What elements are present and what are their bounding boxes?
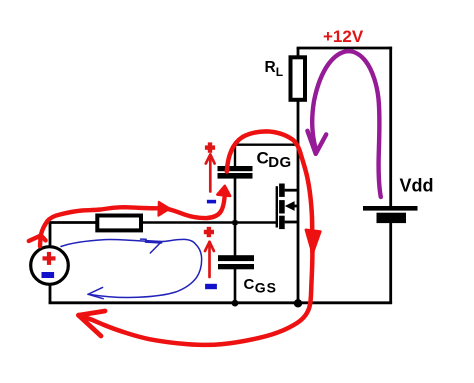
- junction: gate node: [233, 220, 238, 225]
- junction: source-bottom node: [294, 299, 302, 307]
- svg-text:C: C: [257, 149, 269, 168]
- wire: gate wire from R1 to MOSFET gate: [142, 221, 277, 224]
- wire: CGS bottom lead to bottom rail: [234, 269, 237, 304]
- annotation: red arrowhead mid (pointing down, on drain descent): [306, 230, 321, 254]
- annotation: red plus at CGS: [204, 227, 214, 237]
- svg-text:+12V: +12V: [323, 27, 364, 46]
- wire: right rail upper (top rail to Vdd battery): [389, 47, 392, 207]
- polarity - of source (blue): [42, 272, 55, 278]
- battery Vdd top plate: [363, 206, 418, 211]
- annotation: red up arrow at CGS: [205, 242, 214, 277]
- resistor RL: [291, 57, 306, 100]
- battery Vdd bottom plate: [377, 213, 407, 223]
- annotation: blue minus at CDG: [207, 200, 216, 204]
- annotation: red arrowhead at bottom-left (pointing up-left): [79, 311, 106, 336]
- annotation: red big loop over CDG and down the drain, around to source: [81, 131, 313, 344]
- annotation: blue minus at CGS: [205, 284, 217, 289]
- svg-text:DG: DG: [268, 154, 291, 171]
- Q1 channel bar (source): [279, 216, 285, 229]
- wire: CDG top lead and horizontal to drain rail: [235, 145, 298, 167]
- wire: from source bottom to bottom rail: [49, 284, 52, 303]
- junction: CGS-bottom node: [232, 300, 239, 307]
- annotation: red arrowhead into CDG (pointing up): [217, 186, 230, 196]
- annotation: red current arrow from source along gate loop into CDG: [29, 194, 225, 246]
- Q1 source stub: [285, 221, 298, 224]
- Q1 body arrow: [292, 205, 298, 208]
- resistor R1 (series, horizontal): [97, 216, 141, 231]
- Q1 drain stub: [285, 189, 298, 192]
- wire: top rail from RL top to right rail: [297, 47, 393, 50]
- Q1 gate bar: [276, 186, 278, 227]
- transistor Q1 (N-MOSFET): [276, 184, 298, 230]
- wire: drain rail from RL bottom down to bottom wire: [297, 101, 300, 304]
- annotation: red up arrow at CDG: [206, 155, 215, 192]
- capacitor CGS: [218, 255, 254, 269]
- annotation: blue circulating loop in input mesh: [61, 239, 202, 299]
- svg-text:GS: GS: [255, 280, 277, 296]
- Q1 channel bar (body): [279, 200, 285, 213]
- wire: CDG bottom lead down through gate node to CGS: [234, 178, 237, 256]
- annotation: red mid chevron on gate loop: [158, 202, 169, 216]
- annotation: purple arrow from Vdd up over to drain node: [307, 51, 380, 197]
- svg-text:Vdd: Vdd: [400, 176, 434, 196]
- polarity + of source (red): [43, 252, 56, 265]
- svg-text:C: C: [244, 276, 255, 293]
- Q1 channel bar (drain): [279, 184, 285, 197]
- wire: right rail lower (battery to bottom wire): [389, 223, 392, 304]
- wire: from source top to series resistor: [50, 223, 97, 247]
- capacitor CDG: [218, 166, 253, 179]
- wire: bottom rail: [49, 301, 393, 304]
- svg-text:L: L: [276, 65, 283, 79]
- wire: stub from top rail down to RL: [297, 48, 300, 58]
- voltage source V1: [31, 247, 69, 285]
- annotation: red plus at CDG: [205, 142, 215, 152]
- svg-text:R: R: [265, 59, 276, 76]
